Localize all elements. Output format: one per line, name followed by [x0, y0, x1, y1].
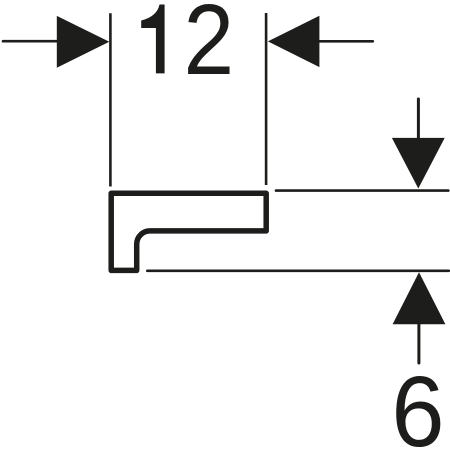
reference line top (6) — [276, 189, 448, 192]
arrowhead left pointing right (12) — [57, 16, 110, 68]
arrowhead right pointing left (12) — [268, 16, 320, 67]
profile outline — [111, 193, 266, 270]
extension line right (12) — [265, 13, 268, 185]
extension line left (12) — [109, 13, 112, 186]
dimension line right (12) — [319, 40, 373, 43]
arrow tail down (6) — [417, 99, 420, 140]
arrowhead down (6) — [392, 138, 445, 189]
dimension label 12, digit 1 drawn as path — [141, 5, 164, 74]
arrowhead up (6) — [393, 272, 446, 324]
arrow tail up (6) — [417, 322, 420, 363]
svg-text:6: 6 — [391, 355, 444, 450]
svg-text:2: 2 — [183, 0, 234, 96]
dimension line left (12) — [3, 40, 60, 43]
reference line bottom (6) — [147, 269, 449, 272]
